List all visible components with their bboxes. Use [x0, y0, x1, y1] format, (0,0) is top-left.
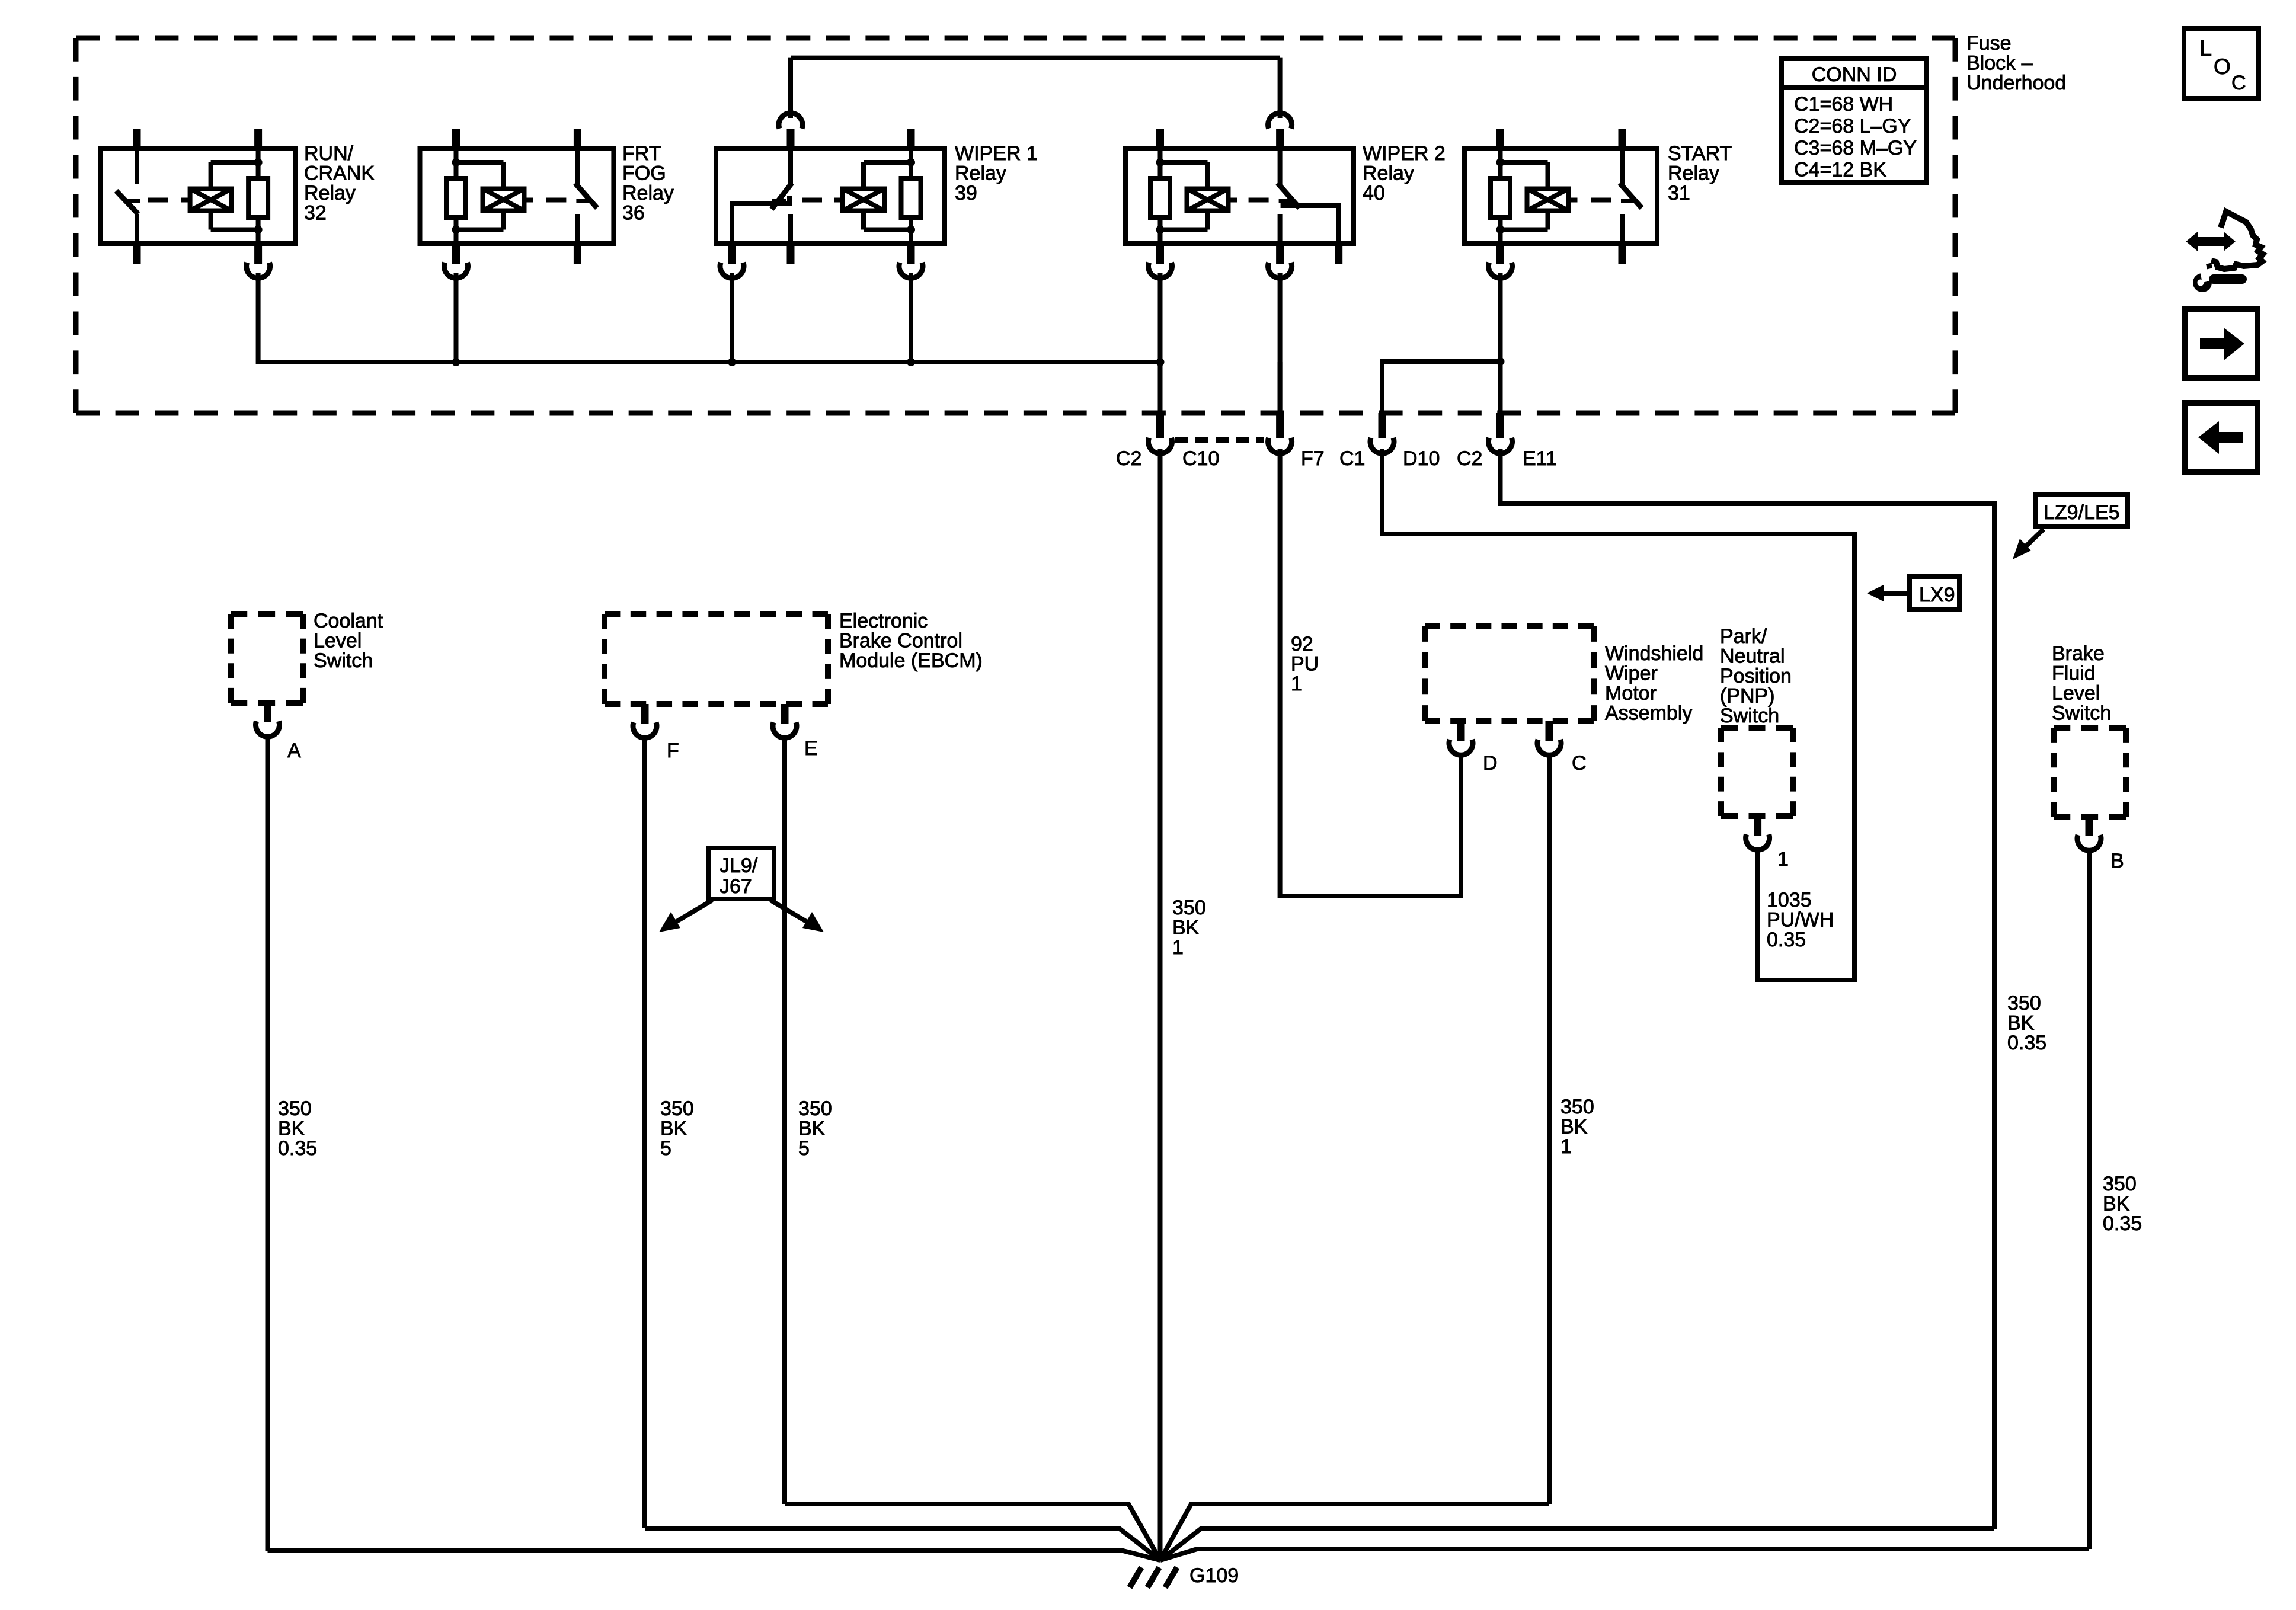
LZ9/LE5 callout box — [2035, 495, 2128, 527]
relay K36 coil bracket — [456, 160, 504, 165]
relay K32 switch contacts — [135, 148, 139, 184]
svg-text:0.35: 0.35 — [278, 1137, 317, 1160]
svg-text:Relay: Relay — [1363, 162, 1414, 185]
wire 92 PU 1 (F7 to wiper D) — [1280, 449, 1461, 896]
relay K36 coil top pin — [452, 129, 460, 148]
svg-text:0.35: 0.35 — [1767, 929, 1806, 951]
wire K39 coil drop — [909, 273, 913, 362]
svg-text:1: 1 — [1777, 848, 1789, 870]
svg-text:Wiper: Wiper — [1605, 662, 1658, 685]
svg-text:LX9: LX9 — [1919, 584, 1955, 606]
relay K32 switch blade — [116, 191, 138, 214]
svg-text:Relay: Relay — [955, 162, 1006, 185]
wiper motor pin C connector — [1546, 721, 1553, 741]
svg-text:O: O — [2214, 55, 2231, 79]
relay K31 coil bracket — [1501, 160, 1548, 165]
svg-text:RUN/: RUN/ — [304, 142, 354, 165]
svg-text:Neutral: Neutral — [1720, 645, 1785, 668]
svg-text:(PNP): (PNP) — [1720, 685, 1775, 708]
relay K39 switch top pin — [787, 129, 795, 148]
relay K40 coil — [1187, 189, 1229, 211]
relay K32 junction dot top — [254, 158, 263, 167]
arrow-right icon arrow — [2200, 338, 2224, 349]
wire PNP pin1 drop — [1755, 847, 1760, 980]
svg-text:START: START — [1668, 142, 1732, 165]
svg-text:Module (EBCM): Module (EBCM) — [839, 649, 983, 672]
svg-text:C10: C10 — [1182, 447, 1219, 470]
node bus-K36 — [452, 358, 461, 366]
svg-text:1: 1 — [1172, 936, 1184, 959]
svg-text:C: C — [2231, 72, 2246, 94]
wire K32 coil to ground bus — [258, 273, 1160, 362]
PNP switch box — [1721, 725, 1793, 731]
relay K32 coil — [190, 189, 232, 211]
relay K39 coil bottom connector — [899, 263, 923, 278]
relay K31 coil-pin conductor — [1498, 148, 1503, 178]
JL9/J67 arrow left — [676, 900, 712, 922]
wire 350 BK 0.35 (E11 to ground) — [1501, 449, 1995, 1529]
relay K39 left bottom connector — [720, 263, 744, 278]
C2 connector — [1149, 438, 1172, 453]
svg-text:40: 40 — [1363, 182, 1385, 204]
svg-text:Position: Position — [1720, 665, 1792, 687]
arrow-right icon box — [2185, 309, 2257, 378]
svg-text:E11: E11 — [1523, 447, 1557, 470]
svg-text:BK: BK — [2103, 1193, 2130, 1215]
svg-text:BK: BK — [798, 1118, 826, 1140]
relay K36 switch contacts — [575, 148, 580, 184]
wire K31 coil drop — [1498, 273, 1503, 361]
wire K40 coil drop — [1158, 273, 1163, 362]
svg-text:Switch: Switch — [1720, 705, 1779, 727]
svg-text:350: 350 — [1172, 897, 1206, 919]
wire E11 border crossing — [1498, 362, 1503, 415]
relay K40 coil top pin — [1156, 129, 1164, 148]
svg-text:LZ9/LE5: LZ9/LE5 — [2044, 501, 2120, 524]
relay K31 coil bottom connector — [1489, 263, 1512, 278]
svg-text:Relay: Relay — [622, 182, 674, 204]
relay K31 coil bottom pin — [1496, 244, 1504, 264]
svg-text:5: 5 — [798, 1137, 810, 1160]
EBCM box — [605, 611, 828, 617]
node bus-K39-coil — [907, 358, 915, 366]
relay K36 coil bottom pin — [452, 244, 460, 264]
relay K36 resistor — [446, 178, 466, 217]
relay K39 switch top connector — [779, 113, 802, 129]
wire 350 BK 5 EBCM E — [782, 735, 787, 1504]
C10 dashed connector link — [1175, 437, 1264, 443]
svg-text:C3=68 M–GY: C3=68 M–GY — [1794, 137, 1917, 159]
relay K39 actuator dashed link — [834, 198, 843, 203]
EBCM pin F connector — [641, 704, 649, 724]
svg-text:Fuse: Fuse — [1966, 32, 2012, 55]
CONN ID table box — [1782, 59, 1927, 183]
F7 pin — [1276, 413, 1284, 438]
svg-text:Underhood: Underhood — [1966, 72, 2066, 94]
relay K40 box — [1125, 148, 1354, 244]
arrow-left icon arrow — [2219, 432, 2243, 443]
relay K39 switch bottom pin — [787, 244, 795, 264]
D10 pin — [1379, 413, 1386, 438]
svg-text:39: 39 — [955, 182, 977, 204]
relay K40 coil bottom connector — [1149, 263, 1172, 278]
E11 pin — [1496, 413, 1504, 438]
harness repair icon double arrow — [2196, 237, 2225, 246]
wire K36 coil drop — [454, 273, 459, 362]
svg-text:1: 1 — [1560, 1135, 1572, 1158]
relay K39 switched-output elbow — [732, 196, 789, 244]
relay K39 switch contacts — [788, 148, 793, 184]
wire ground rail right LZ9 — [1160, 1529, 1994, 1560]
svg-text:CONN ID: CONN ID — [1812, 63, 1897, 86]
wire K40 switch drop — [1278, 273, 1283, 415]
svg-text:WIPER 1: WIPER 1 — [955, 142, 1038, 165]
svg-text:CRANK: CRANK — [304, 162, 375, 185]
coolant level switch box — [231, 611, 303, 617]
svg-text:1: 1 — [1291, 673, 1302, 695]
svg-text:Park/: Park/ — [1720, 625, 1767, 648]
relay K36 junction dot bottom — [452, 226, 461, 234]
JL9/J67 option box — [709, 848, 774, 899]
relay K31 coil — [1527, 189, 1569, 211]
LX9 callout box — [1910, 577, 1959, 610]
D10 connector — [1370, 438, 1394, 453]
relay K36 switch top pin — [574, 129, 581, 148]
wire K39 left drop — [730, 273, 734, 362]
relay K40 switch contacts — [1278, 148, 1283, 184]
relay K32 coil bottom pin — [254, 244, 262, 264]
svg-text:L: L — [2199, 36, 2212, 61]
svg-text:Electronic: Electronic — [839, 610, 928, 632]
LOC icon box — [2184, 28, 2259, 98]
relay K40 coil bottom pin — [1156, 244, 1164, 264]
arrow-left icon box — [2185, 403, 2257, 472]
relay K39 junction dot bottom — [907, 226, 915, 234]
svg-text:Switch: Switch — [2052, 702, 2111, 725]
svg-text:FOG: FOG — [622, 162, 666, 185]
svg-text:Relay: Relay — [1668, 162, 1719, 185]
svg-text:32: 32 — [304, 202, 327, 225]
relay K40 switch top connector — [1268, 113, 1292, 129]
relay K31 switch blade — [1620, 183, 1642, 208]
E11 connector — [1489, 438, 1512, 453]
relay K36 actuator dashed link — [525, 198, 533, 203]
relay K32 switch top pin — [133, 129, 141, 148]
svg-text:G109: G109 — [1189, 1564, 1239, 1587]
svg-text:0.35: 0.35 — [2103, 1212, 2142, 1235]
PNP pin 1 connector — [1754, 816, 1761, 836]
relay K40 actuator dashed link — [1229, 198, 1237, 203]
harness repair icon wrench — [2193, 273, 2212, 292]
relay K40 switch bottom connector — [1268, 263, 1292, 278]
wire D10 branch — [1382, 361, 1501, 415]
windshield wiper motor assembly box — [1425, 623, 1594, 629]
svg-text:J67: J67 — [720, 875, 752, 898]
C2 pin — [1156, 413, 1164, 438]
relay K32 coil bottom connector — [247, 263, 270, 278]
coolant level switch pin A connector — [264, 703, 271, 722]
relay K40 switch blade — [1278, 183, 1300, 208]
EBCM pin E connector — [781, 704, 789, 724]
relay K39 left bottom pin — [728, 244, 736, 264]
svg-text:BK: BK — [660, 1118, 687, 1140]
relay K36 coil-pin conductor — [454, 148, 459, 178]
relay K40 switch top pin — [1276, 129, 1284, 148]
svg-text:FRT: FRT — [622, 142, 661, 165]
svg-text:BK: BK — [1172, 917, 1200, 939]
svg-text:F: F — [667, 740, 679, 762]
wire ground rail right C — [1160, 1504, 1549, 1560]
relay K40 coil bracket — [1160, 160, 1208, 165]
svg-text:C: C — [1572, 752, 1587, 774]
relay K40 elbow bottom pin — [1335, 244, 1342, 264]
relay K32 resistor — [248, 178, 268, 217]
relay K39 box — [716, 148, 945, 244]
relay K39 coil bottom pin — [907, 244, 915, 264]
svg-text:C2=68 L–GY: C2=68 L–GY — [1794, 115, 1911, 137]
ground G109 symbol — [1130, 1567, 1141, 1587]
svg-text:C1: C1 — [1339, 447, 1365, 470]
relay K32 actuator dashed link — [181, 198, 190, 203]
wire C2 border crossing — [1158, 362, 1163, 415]
svg-text:D10: D10 — [1403, 447, 1440, 470]
relay K31 resistor — [1491, 178, 1510, 217]
wire 1035 PU/WH (D10 to PNP) — [1382, 449, 1854, 980]
wire D10 border crossing — [1380, 413, 1384, 415]
svg-text:350: 350 — [2007, 992, 2041, 1014]
relay K32 coil-pin conductor — [256, 148, 261, 178]
relay K39 coil — [843, 189, 884, 211]
relay K31 switch top pin — [1619, 129, 1626, 148]
relay K40 junction dot bottom — [1156, 226, 1165, 234]
wire 350 BK 5 EBCM F — [642, 735, 647, 1528]
relay K31 junction dot bottom — [1496, 226, 1505, 234]
relay K36 coil — [483, 189, 525, 211]
brake fluid level switch box — [2054, 725, 2126, 731]
svg-text:350: 350 — [660, 1097, 694, 1120]
svg-text:Block –: Block – — [1966, 52, 2033, 75]
relay K31 actuator dashed link — [1569, 198, 1578, 203]
relay K31 box — [1464, 148, 1657, 244]
wire ground rail left A — [268, 1551, 1160, 1560]
relay K39 resistor — [901, 178, 921, 217]
wiper motor pin D connector — [1457, 721, 1465, 741]
relay K39 coil bracket — [864, 160, 911, 165]
wire F7 border crossing — [1278, 362, 1283, 415]
svg-text:C1=68 WH: C1=68 WH — [1794, 93, 1893, 116]
wire top rail drop to K39 — [788, 58, 793, 118]
relay K39 junction dot top — [907, 158, 915, 167]
brake pin B connector — [2086, 817, 2093, 836]
relay K40 switched-output elbow — [1281, 206, 1339, 244]
svg-text:JL9/: JL9/ — [720, 854, 758, 877]
svg-text:350: 350 — [1560, 1096, 1594, 1118]
LZ9/LE5 arrow — [2022, 529, 2044, 550]
relay K31 switch bottom pin — [1619, 244, 1626, 264]
relay K36 switch blade — [575, 183, 597, 208]
svg-text:BK: BK — [2007, 1012, 2035, 1035]
relay K40 coil-pin conductor — [1158, 148, 1163, 178]
svg-text:Coolant: Coolant — [314, 610, 383, 632]
svg-text:Brake Control: Brake Control — [839, 630, 962, 652]
relay K31 junction dot top — [1496, 158, 1505, 167]
svg-text:Motor: Motor — [1605, 682, 1657, 705]
relay K31 switch contacts — [1620, 148, 1625, 184]
relay K40 switch bottom pin — [1276, 244, 1284, 264]
svg-text:Relay: Relay — [304, 182, 356, 204]
relay K32 junction dot bottom — [254, 226, 263, 234]
relay K36 coil bottom connector — [445, 263, 468, 278]
wire 350 BK 1 wiper C — [1547, 753, 1552, 1504]
svg-text:C4=12 BK: C4=12 BK — [1794, 159, 1886, 181]
svg-text:Switch: Switch — [314, 649, 373, 672]
svg-text:350: 350 — [278, 1097, 312, 1120]
svg-text:B: B — [2110, 850, 2124, 872]
relay K40 resistor — [1150, 178, 1170, 217]
svg-text:C2: C2 — [1116, 447, 1141, 470]
svg-text:92: 92 — [1291, 633, 1313, 655]
svg-text:Level: Level — [2052, 682, 2100, 705]
wire 350 BK 0.35 brake B — [2087, 848, 2092, 1549]
relay K39 switch blade — [772, 183, 792, 209]
svg-text:36: 36 — [622, 202, 645, 225]
svg-text:Fluid: Fluid — [2052, 662, 2096, 685]
svg-text:D: D — [1483, 752, 1498, 774]
svg-text:PU: PU — [1291, 653, 1319, 676]
svg-text:31: 31 — [1668, 182, 1690, 204]
relay K32 coil bracket — [211, 160, 258, 165]
relay K32 box — [100, 148, 295, 244]
fuse block underhood dashed border — [76, 36, 1955, 41]
JL9/J67 arrow right — [770, 900, 807, 922]
svg-text:BK: BK — [278, 1118, 305, 1140]
relay K36 box — [420, 148, 614, 244]
svg-text:WIPER 2: WIPER 2 — [1363, 142, 1446, 165]
relay K36 switch bottom pin — [574, 244, 581, 264]
svg-text:A: A — [287, 740, 301, 762]
relay K32 switch bottom pin — [133, 244, 141, 264]
wire 350 BK 0.35 coolant A — [266, 734, 270, 1551]
wire top feed rail — [791, 56, 1280, 60]
svg-text:C2: C2 — [1457, 447, 1482, 470]
relay K31 coil top pin — [1496, 129, 1504, 148]
svg-text:E: E — [804, 737, 818, 760]
node bus-K40-coil — [1156, 358, 1165, 366]
svg-text:5: 5 — [660, 1137, 671, 1160]
wire ground rail left E — [785, 1504, 1160, 1560]
svg-text:Windshield: Windshield — [1605, 642, 1703, 665]
F7 connector — [1268, 438, 1292, 453]
svg-text:350: 350 — [798, 1097, 832, 1120]
relay K39 coil-pin conductor — [909, 148, 913, 178]
svg-text:BK: BK — [1560, 1116, 1588, 1138]
wire top rail drop to K40 — [1278, 58, 1283, 118]
wire 350 BK 1 (C2 to G109) — [1158, 449, 1163, 1560]
relay K40 junction dot top — [1156, 158, 1165, 167]
svg-text:Assembly: Assembly — [1605, 702, 1692, 725]
LX9 arrow — [1880, 591, 1910, 596]
svg-text:Brake: Brake — [2052, 642, 2105, 665]
relay K39 coil top pin — [907, 129, 915, 148]
CONN ID header line — [1782, 85, 1927, 90]
relay K32 coil top pin — [254, 129, 262, 148]
svg-text:F7: F7 — [1301, 447, 1325, 470]
relay K36 junction dot top — [452, 158, 461, 167]
harness repair icon broken wire — [2211, 212, 2263, 269]
node bus-K39-left — [728, 358, 736, 366]
svg-text:Level: Level — [314, 630, 362, 652]
wire ground rail right B — [1160, 1549, 2089, 1560]
svg-text:350: 350 — [2103, 1173, 2137, 1195]
svg-text:1035: 1035 — [1767, 889, 1812, 911]
wire ground rail left F — [645, 1528, 1160, 1560]
svg-text:PU/WH: PU/WH — [1767, 909, 1834, 932]
svg-text:0.35: 0.35 — [2007, 1032, 2046, 1054]
node K31-branch — [1496, 357, 1505, 366]
